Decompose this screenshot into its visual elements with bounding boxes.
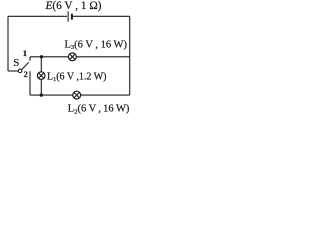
- wire left side: [7, 16, 9, 71]
- wire switch contact 2 down to bottom: [29, 71, 31, 95]
- svg-text:S: S: [13, 57, 19, 69]
- node junction top: [40, 55, 43, 58]
- wire top-left from corner to battery: [8, 15, 67, 17]
- switch S pivot circle: [18, 69, 22, 73]
- wire bottom: [30, 94, 130, 96]
- switch contact 1 stub: [29, 57, 31, 61]
- svg-text:L2(6 V , 16 W): L2(6 V , 16 W): [68, 104, 130, 116]
- switch S lever arm: [22, 62, 29, 69]
- wire L1 vertical branch: [40, 57, 42, 95]
- lamp L1 cross: [39, 73, 44, 78]
- lamp L3 circle: [68, 53, 76, 61]
- wire top-right from battery to corner: [72, 15, 129, 17]
- svg-text:L1(6 V ,1.2 W): L1(6 V ,1.2 W): [47, 71, 106, 83]
- lamp L1 circle: [37, 72, 45, 80]
- battery E positive plate: [67, 11, 69, 21]
- lamp L2 circle: [73, 91, 81, 99]
- node junction bottom: [40, 93, 43, 96]
- lamp L3 cross: [70, 54, 76, 60]
- wire feed to switch pivot: [8, 70, 18, 72]
- battery E negative plate: [71, 14, 73, 20]
- svg-text:2: 2: [24, 69, 28, 79]
- svg-text:1: 1: [23, 48, 27, 58]
- wire right side: [129, 16, 131, 95]
- svg-text:L3(6 V , 16 W): L3(6 V , 16 W): [65, 39, 128, 51]
- svg-text:E(6 V , 1 Ω): E(6 V , 1 Ω): [45, 0, 102, 12]
- lamp L2 cross: [74, 92, 80, 98]
- wire branch 1 horizontal: [30, 56, 130, 58]
